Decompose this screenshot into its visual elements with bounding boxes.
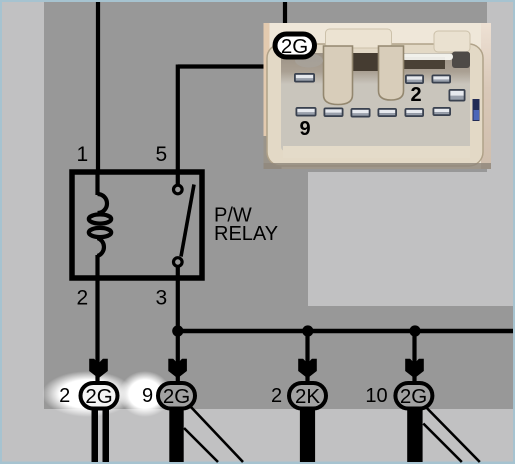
svg-text:10: 10: [365, 385, 387, 407]
svg-text:3: 3: [155, 287, 167, 310]
svg-text:2K: 2K: [295, 385, 320, 408]
svg-text:9: 9: [299, 118, 310, 140]
svg-text:2: 2: [77, 287, 89, 310]
svg-text:2G: 2G: [281, 35, 308, 58]
svg-text:2G: 2G: [85, 385, 112, 408]
svg-text:2: 2: [271, 385, 282, 407]
svg-text:2G: 2G: [400, 385, 427, 408]
svg-text:2: 2: [410, 84, 421, 106]
svg-text:RELAY: RELAY: [214, 223, 278, 245]
svg-text:9: 9: [142, 385, 153, 407]
svg-text:2G: 2G: [163, 385, 190, 408]
svg-text:5: 5: [155, 143, 167, 166]
svg-text:2: 2: [59, 385, 70, 407]
svg-text:1: 1: [77, 143, 89, 166]
